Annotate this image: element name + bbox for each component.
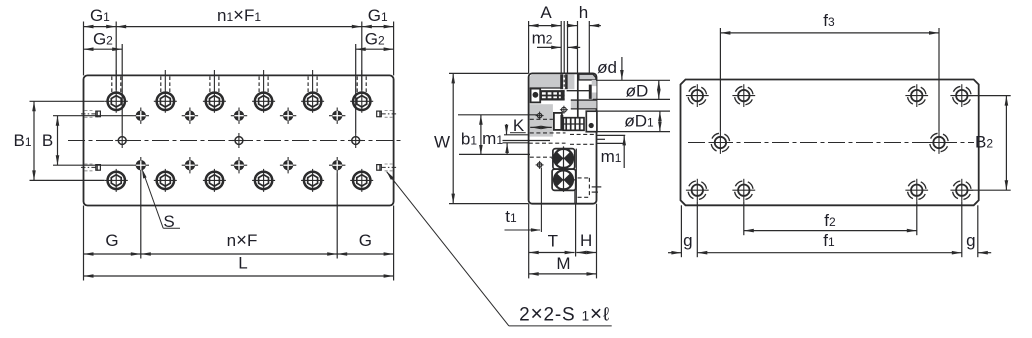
- dimension G right bottom: [337, 253, 393, 255]
- dimension n1xF1: [116, 26, 362, 28]
- tapped hole row 2 col 5: [329, 157, 345, 173]
- side tapped hole S1 at edge x=393.6 y=113.9: [376, 111, 396, 118]
- dashed hidden screw bottom right: [578, 177, 590, 179]
- m1 left dimension: [504, 134, 529, 136]
- gray section: left column: [530, 104, 553, 136]
- screw hole (socket head) row 1 col 5: [301, 70, 324, 113]
- hidden lines above top screw holes: [111, 76, 113, 92]
- svg-text:W: W: [434, 132, 450, 151]
- svg-text:n1×F1: n1×F1: [217, 4, 261, 25]
- right view: plate outline: [681, 80, 979, 206]
- screw head bars above (section): [560, 74, 574, 89]
- hole top 1: [685, 83, 710, 108]
- dimension oD: [658, 80, 660, 99]
- dimension H: [576, 252, 596, 254]
- screw hole (socket head) row 2 col 2: [154, 169, 177, 192]
- svg-text:g: g: [683, 231, 692, 250]
- horizontal screw section (frame + ladder): [554, 113, 562, 130]
- screw hole (socket head) row 2 col 1: [105, 169, 128, 192]
- dimension g left: [668, 252, 681, 254]
- screw hole (socket head) row 1 col 4: [252, 70, 275, 113]
- dimension g right: [978, 252, 991, 254]
- svg-text:n×F: n×F: [227, 229, 258, 250]
- small hole on centerline 3: [349, 133, 363, 148]
- hidden dashed lines in section: [530, 118, 553, 120]
- svg-text:L: L: [238, 254, 247, 273]
- svg-text:G2: G2: [365, 30, 385, 49]
- svg-text:G1: G1: [90, 6, 110, 25]
- svg-text:T: T: [548, 231, 558, 250]
- tapped hole row 1 col 1: [133, 108, 149, 124]
- svg-text:B2: B2: [975, 133, 993, 152]
- svg-text:øD: øD: [626, 82, 649, 101]
- thread section ladder (vertical screw): [540, 90, 564, 100]
- dimension m1 right: [623, 135, 625, 168]
- svg-text:øD1: øD1: [624, 112, 654, 131]
- svg-text:B1: B1: [13, 131, 31, 150]
- screw hole (socket head) row 1 col 2: [154, 70, 177, 113]
- tapped hole row 1 col 3: [231, 108, 247, 124]
- extension lines bottom (left view): [83, 206, 85, 281]
- dimension B: [57, 116, 59, 166]
- svg-text:m2: m2: [532, 29, 553, 48]
- small hole on centerline 1: [115, 133, 129, 148]
- svg-text:M: M: [556, 254, 570, 273]
- middle view: section body outline: [529, 73, 597, 203]
- dimension nxF: [141, 253, 337, 255]
- dimension oD1: [659, 111, 661, 132]
- small hole on centerline 2: [232, 133, 246, 148]
- hole bottom 1: [685, 178, 710, 203]
- left view: plate outline: [84, 75, 394, 205]
- counterbore square w/ pin (right): [586, 111, 597, 132]
- dimension W: [452, 73, 454, 203]
- dimension od leader: [621, 57, 623, 80]
- screw hole (socket head) row 2 col 4: [252, 169, 275, 192]
- svg-text:ød: ød: [597, 58, 617, 77]
- t1 leader: [505, 229, 541, 231]
- svg-text:G: G: [359, 231, 372, 250]
- dimension G1 left: [84, 26, 117, 28]
- tapped hole row 1 col 5: [329, 108, 345, 124]
- dimension A: [529, 25, 562, 27]
- tapped hole row 2 col 3: [231, 157, 247, 173]
- ball section at 563.5,158.4: [552, 146, 576, 170]
- dimension f1: [697, 252, 962, 254]
- svg-text:S: S: [163, 212, 174, 231]
- dimension b1: [480, 115, 482, 155]
- svg-text:G: G: [105, 231, 118, 250]
- svg-text:b1: b1: [461, 129, 477, 148]
- S leader and label: [143, 172, 163, 229]
- gray section: mid right block: [571, 100, 597, 109]
- side tapped hole S1 at edge x=83.5 y=113.9: [81, 111, 101, 118]
- hole bottom 4: [950, 178, 975, 203]
- screw hole (socket head) row 1 col 1: [105, 70, 128, 113]
- hole bottom 3: [904, 178, 929, 203]
- tapped hole row 2 col 2: [182, 157, 198, 173]
- hole middle 2: [927, 130, 952, 155]
- svg-text:f3: f3: [823, 11, 835, 30]
- W extension lines: [449, 72, 529, 74]
- dimension f3: [720, 32, 939, 34]
- ball section at 563.5,179.9: [552, 168, 576, 192]
- dimension B2: [1005, 96, 1007, 191]
- b1 extension lines: [458, 114, 537, 116]
- svg-text:A: A: [540, 3, 552, 22]
- dimension M: [529, 273, 597, 275]
- svg-text:f2: f2: [824, 211, 836, 230]
- svg-text:m1: m1: [601, 147, 622, 166]
- dimension G2 right: [356, 48, 394, 50]
- double vertical lines below balls: [574, 190, 576, 203]
- side tapped hole S1 at edge x=83.5 y=167.4: [81, 164, 101, 171]
- small crosshair circle lower: [536, 161, 544, 169]
- dimension h: [567, 25, 578, 27]
- gray section: top block: [530, 75, 561, 88]
- hole top 4: [950, 83, 975, 108]
- right piece inner bracket: [589, 85, 592, 99]
- dimension L: [84, 275, 394, 277]
- side tapped hole S1 at edge x=393.6 y=167.4: [376, 164, 396, 171]
- svg-text:t1: t1: [505, 207, 517, 226]
- screw hole (socket head) row 1 col 6: [350, 70, 373, 113]
- gray section: right strip: [592, 80, 597, 109]
- screw hole (socket head) row 1 col 3: [203, 70, 226, 113]
- dimension G2 left: [84, 48, 123, 50]
- svg-text:B: B: [42, 131, 53, 150]
- svg-text:m1: m1: [482, 129, 503, 148]
- centerline (right view): [688, 142, 974, 144]
- tapped hole row 1 col 2: [182, 108, 198, 124]
- ball frames: [553, 149, 575, 170]
- svg-text:g: g: [966, 231, 975, 250]
- t1 feature line: [540, 168, 542, 233]
- dimension G left bottom: [84, 253, 141, 255]
- diameter reference lines: [596, 79, 670, 81]
- screw hole (socket head) row 2 col 5: [301, 169, 324, 192]
- extension lines bottom (middle view): [528, 204, 530, 279]
- gray section: top right piece: [579, 74, 596, 80]
- vertical divider line: [577, 73, 579, 118]
- centerline (left view): [68, 140, 403, 142]
- svg-text:G1: G1: [368, 6, 388, 25]
- tapped hole row 2 col 1: [133, 157, 149, 173]
- extension lines top (left view): [83, 22, 85, 76]
- small crosshair circle upper: [536, 112, 544, 120]
- svg-text:2×2-S 1×ℓ: 2×2-S 1×ℓ: [519, 303, 610, 326]
- screw hole (socket head) row 2 col 3: [203, 169, 226, 192]
- small crosshair circle (screw pilot): [560, 106, 568, 114]
- dimension T: [529, 252, 575, 254]
- extension lines top (middle view): [528, 21, 530, 73]
- hole top 3: [904, 83, 929, 108]
- dimension m2: [537, 46, 561, 48]
- svg-text:G2: G2: [93, 30, 113, 49]
- B2 extension lines: [967, 95, 1011, 97]
- hole top 2: [732, 83, 757, 108]
- screw hole (socket head) row 2 col 6: [350, 169, 373, 192]
- callout leader 2x2-S1xl: [387, 172, 509, 326]
- hole bottom 2: [732, 178, 757, 203]
- dimension G1 right: [362, 26, 394, 28]
- section screw head square w/ pin (left): [531, 89, 541, 103]
- dimension f2: [744, 230, 917, 232]
- svg-text:h: h: [579, 3, 588, 22]
- extension lines B1/B (left side): [30, 100, 105, 102]
- tapped hole row 1 col 4: [280, 108, 296, 124]
- dimension B1: [33, 101, 35, 180]
- extension lines bottom (right view): [680, 205, 682, 257]
- svg-text:H: H: [580, 231, 592, 250]
- svg-text:f1: f1: [823, 231, 835, 250]
- tapped hole row 2 col 4: [280, 157, 296, 173]
- f3 extension lines: [719, 28, 721, 131]
- hole middle 1: [708, 130, 733, 155]
